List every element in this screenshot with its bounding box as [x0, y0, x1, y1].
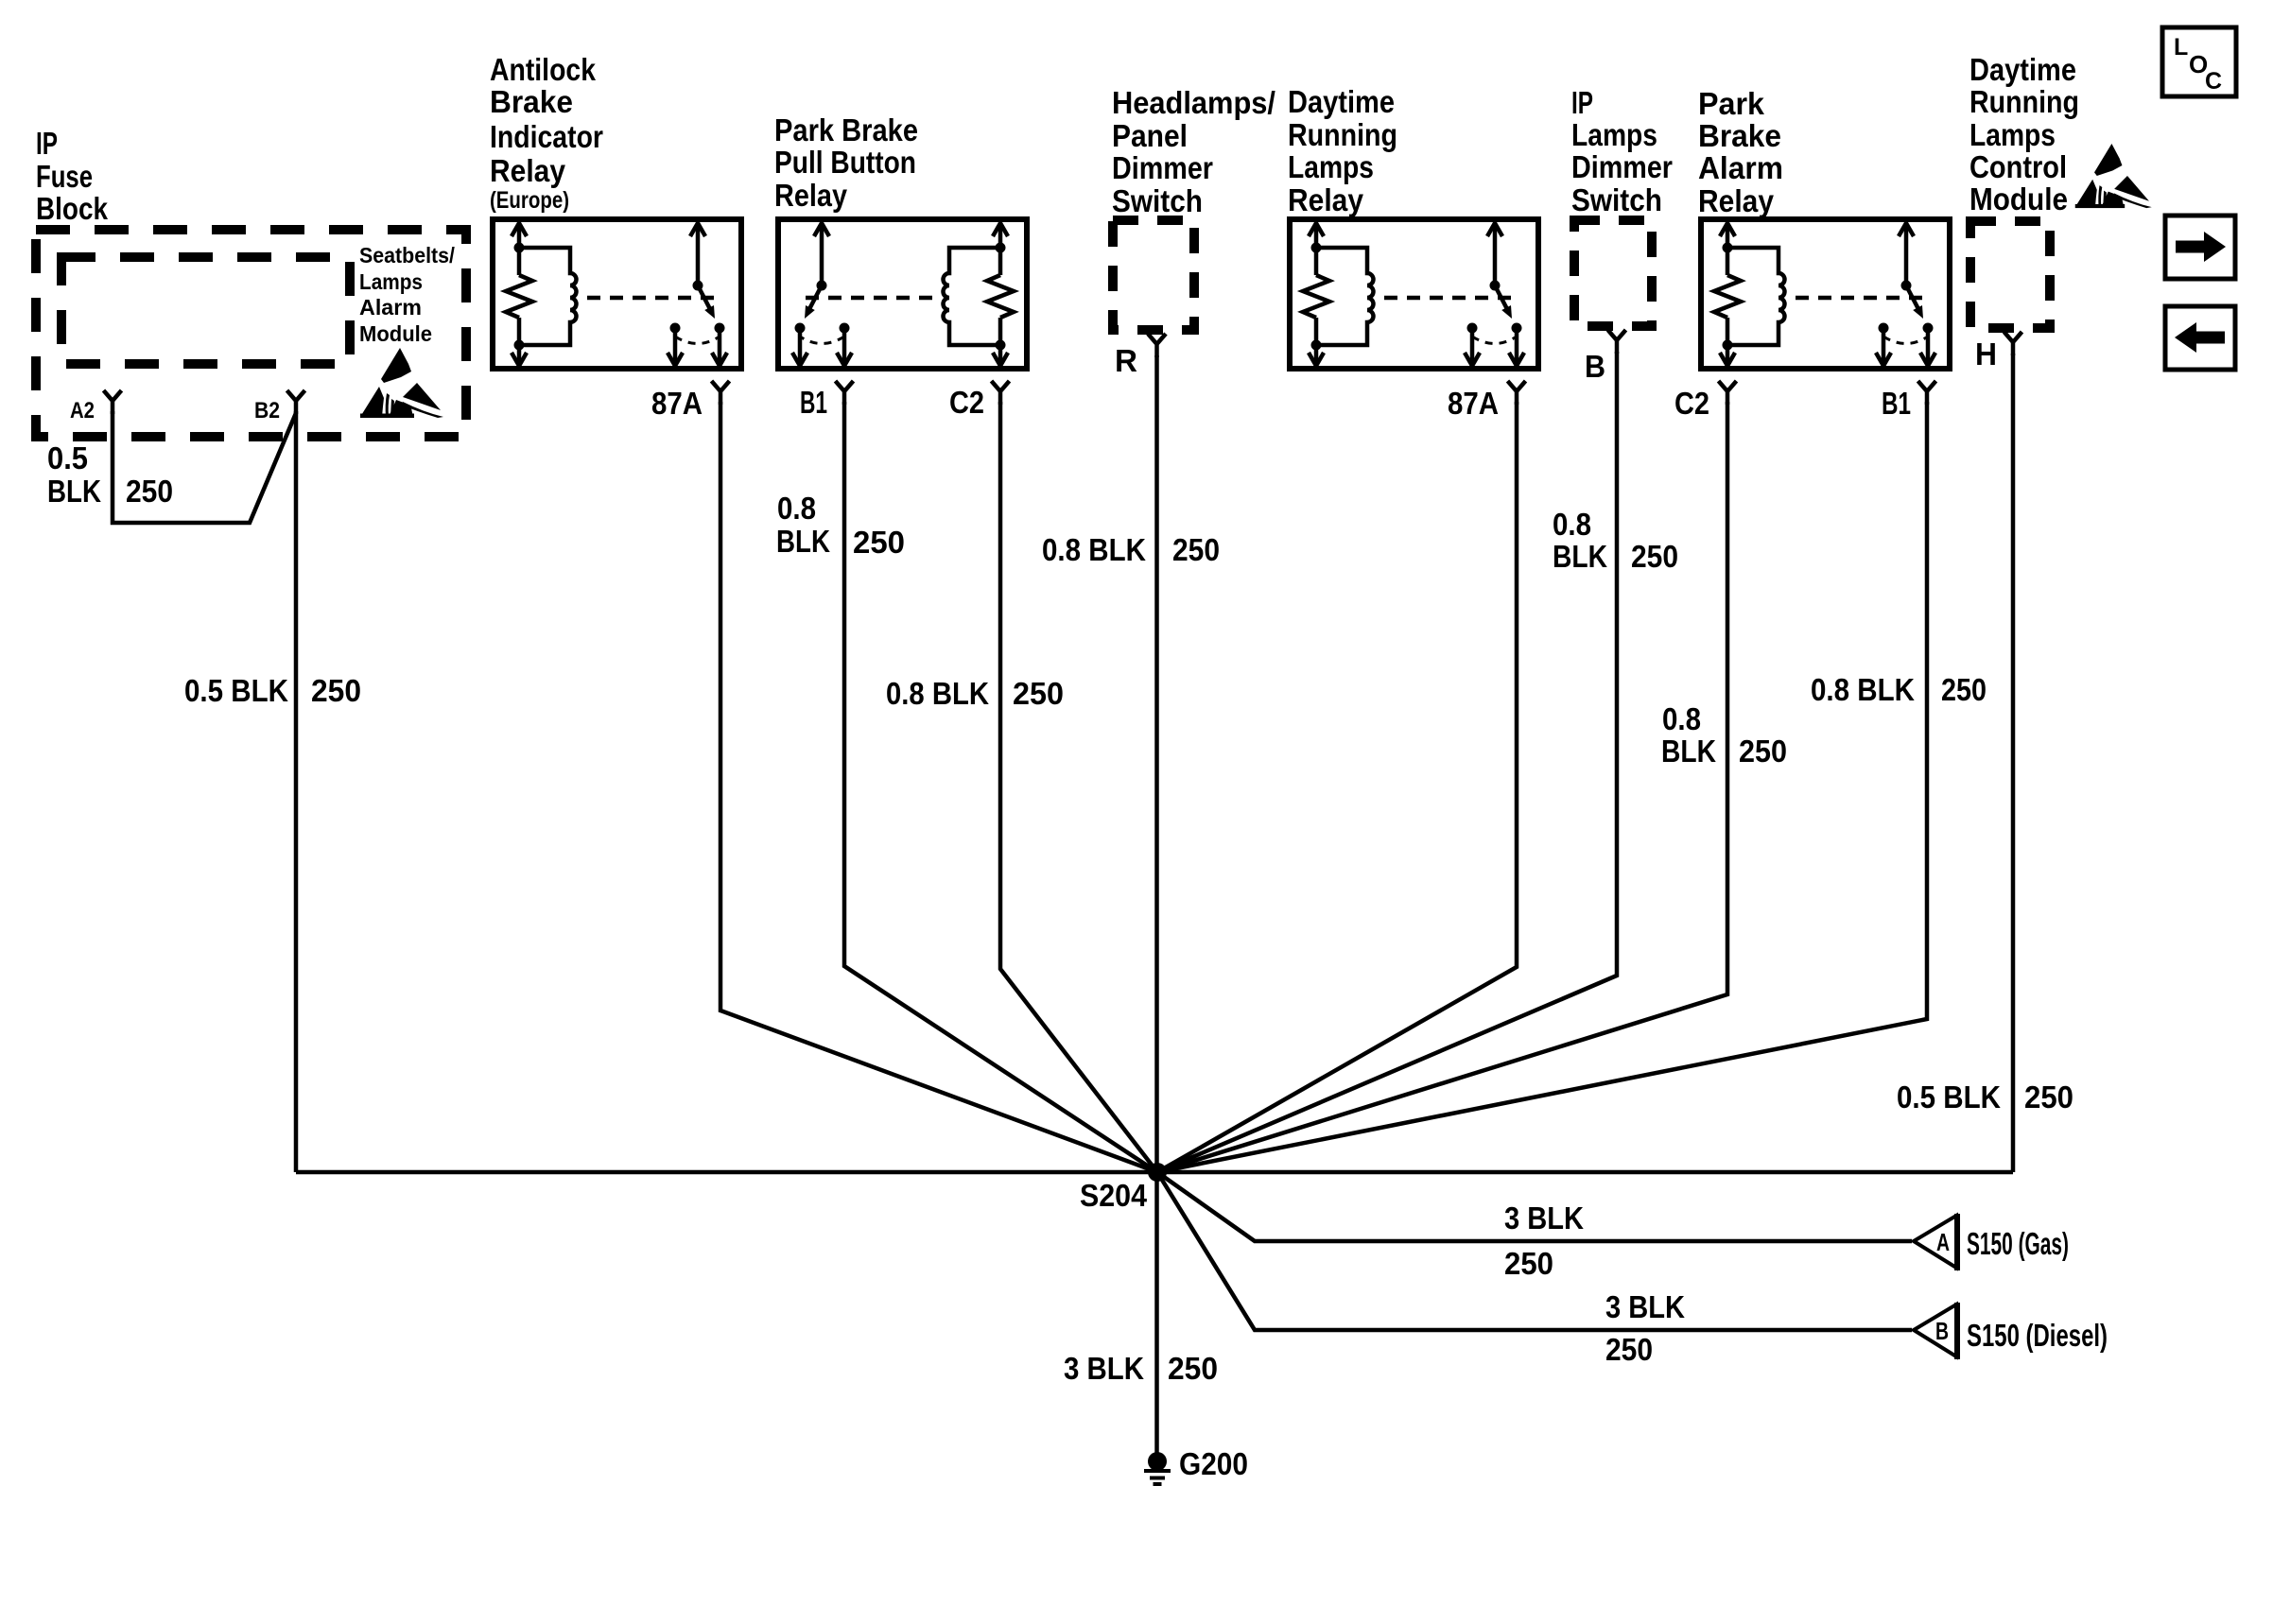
svg-text:BLK: BLK [1661, 734, 1716, 769]
svg-text:Seatbelts/: Seatbelts/ [359, 243, 456, 268]
svg-text:Module: Module [1969, 181, 2068, 216]
svg-text:Switch: Switch [1571, 182, 1662, 217]
svg-text:(Europe): (Europe) [490, 187, 569, 214]
svg-text:Relay: Relay [490, 153, 566, 188]
svg-text:Running: Running [1969, 84, 2079, 119]
svg-text:Brake: Brake [490, 84, 573, 119]
svg-text:Block: Block [36, 191, 109, 226]
svg-text:250: 250 [1739, 734, 1787, 769]
svg-text:Dimmer: Dimmer [1112, 150, 1213, 185]
svg-text:IP: IP [1571, 85, 1593, 120]
svg-text:87A: 87A [651, 386, 703, 421]
svg-text:C: C [2205, 68, 2222, 95]
svg-text:Relay: Relay [774, 178, 848, 213]
svg-text:0.5 BLK: 0.5 BLK [184, 673, 288, 708]
svg-text:250: 250 [2024, 1080, 2073, 1114]
svg-text:0.5 BLK: 0.5 BLK [1897, 1080, 2001, 1114]
svg-text:H: H [1975, 337, 1997, 371]
svg-text:A: A [1936, 1228, 1950, 1256]
svg-text:C2: C2 [1674, 386, 1709, 421]
svg-text:250: 250 [853, 525, 905, 560]
svg-text:Relay: Relay [1698, 183, 1775, 218]
svg-text:Brake: Brake [1698, 118, 1781, 153]
svg-text:250: 250 [1172, 532, 1220, 567]
svg-text:IP: IP [36, 126, 58, 161]
svg-text:Lamps: Lamps [359, 269, 423, 294]
svg-text:0.8: 0.8 [1662, 701, 1701, 736]
svg-text:250: 250 [1631, 539, 1678, 574]
svg-text:S204: S204 [1080, 1178, 1148, 1213]
svg-text:Running: Running [1288, 117, 1397, 152]
svg-text:G200: G200 [1179, 1446, 1248, 1481]
svg-text:L: L [2174, 34, 2188, 60]
svg-text:Park: Park [1698, 86, 1765, 121]
svg-text:C2: C2 [949, 385, 984, 420]
svg-text:Alarm: Alarm [1698, 150, 1783, 185]
svg-text:Lamps: Lamps [1288, 149, 1374, 184]
svg-text:Indicator: Indicator [490, 119, 603, 154]
svg-text:B1: B1 [1882, 386, 1911, 421]
svg-text:B2: B2 [254, 398, 280, 423]
svg-text:B: B [1585, 349, 1605, 384]
svg-text:0.8 BLK: 0.8 BLK [1042, 532, 1146, 567]
svg-text:Daytime: Daytime [1288, 84, 1395, 119]
svg-text:Switch: Switch [1112, 183, 1203, 218]
svg-text:Headlamps/: Headlamps/ [1112, 85, 1275, 120]
svg-text:Control: Control [1969, 149, 2067, 184]
svg-text:87A: 87A [1448, 386, 1499, 421]
svg-text:0.8 BLK: 0.8 BLK [886, 676, 989, 711]
svg-text:S150 (Gas): S150 (Gas) [1967, 1226, 2069, 1261]
svg-text:B: B [1935, 1317, 1949, 1345]
svg-text:Module: Module [359, 321, 432, 346]
svg-text:Daytime: Daytime [1969, 52, 2076, 87]
svg-text:250: 250 [1941, 672, 1987, 707]
svg-text:250: 250 [126, 474, 173, 509]
svg-text:250: 250 [1605, 1332, 1653, 1367]
svg-text:Alarm: Alarm [359, 295, 422, 320]
svg-text:BLK: BLK [776, 524, 830, 559]
svg-text:3 BLK: 3 BLK [1064, 1351, 1144, 1386]
svg-text:250: 250 [1168, 1351, 1218, 1386]
svg-text:BLK: BLK [1553, 539, 1607, 574]
svg-text:250: 250 [1013, 676, 1064, 711]
svg-text:Relay: Relay [1288, 182, 1364, 217]
svg-text:3 BLK: 3 BLK [1605, 1289, 1685, 1324]
svg-text:A2: A2 [70, 398, 95, 423]
svg-text:BLK: BLK [47, 474, 101, 509]
svg-text:S150 (Diesel): S150 (Diesel) [1967, 1318, 2108, 1353]
svg-text:0.8: 0.8 [1553, 507, 1591, 542]
svg-text:0.5: 0.5 [47, 441, 88, 475]
svg-text:3 BLK: 3 BLK [1504, 1201, 1584, 1235]
svg-text:Lamps: Lamps [1571, 117, 1657, 152]
svg-text:0.8 BLK: 0.8 BLK [1811, 672, 1915, 707]
svg-text:Lamps: Lamps [1969, 117, 2056, 152]
svg-text:Antilock: Antilock [490, 52, 597, 87]
svg-text:0.8: 0.8 [777, 491, 816, 526]
svg-text:B1: B1 [800, 385, 827, 420]
svg-text:R: R [1115, 343, 1137, 378]
svg-text:Park Brake: Park Brake [774, 112, 918, 147]
svg-text:250: 250 [311, 673, 361, 708]
svg-text:250: 250 [1504, 1246, 1553, 1281]
svg-text:Panel: Panel [1112, 118, 1188, 153]
svg-text:Pull Button: Pull Button [774, 145, 916, 180]
svg-text:Fuse: Fuse [36, 159, 93, 194]
svg-text:Dimmer: Dimmer [1571, 149, 1673, 184]
